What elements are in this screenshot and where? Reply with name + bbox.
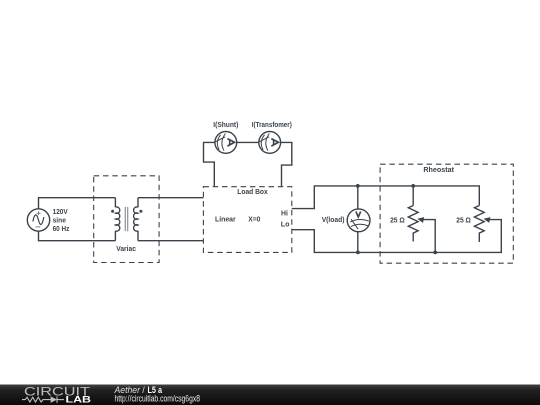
wire load box top terminal to ammeter I(Shunt) bbox=[204, 142, 215, 186]
ammeter I(Shunt) bbox=[215, 132, 237, 154]
svg-text:Linear: Linear bbox=[215, 217, 236, 224]
svg-text:V(load): V(load) bbox=[322, 217, 345, 224]
svg-text:X=0: X=0 bbox=[248, 217, 260, 224]
voltage source V1 bbox=[27, 209, 49, 231]
Variac dashed box bbox=[94, 176, 159, 263]
svg-text:Rheostat: Rheostat bbox=[423, 167, 454, 174]
svg-text:I(Shunt): I(Shunt) bbox=[213, 122, 238, 129]
potentiometer R1 25 ohm bbox=[408, 206, 418, 242]
wire transformer secondary bottom to load box bbox=[138, 240, 203, 242]
voltmeter V(load) bbox=[347, 209, 370, 232]
transformer T1 (Variac) bbox=[115, 198, 138, 241]
svg-text:Load Box: Load Box bbox=[237, 189, 268, 196]
ammeter I(Transfomer) bbox=[259, 132, 281, 154]
Rheostat dashed box bbox=[380, 164, 513, 263]
svg-text:Lo: Lo bbox=[281, 222, 290, 229]
wire voltmeter top stub bbox=[357, 186, 359, 209]
wire pot1 wiper tail to bottom rail bbox=[422, 220, 436, 253]
junction node at pot1 wiper on bottom rail bbox=[433, 251, 437, 255]
wire Hi terminal to rheostat top bbox=[292, 186, 480, 209]
svg-text:120V: 120V bbox=[53, 209, 68, 216]
wire source bottom to transformer primary bbox=[39, 231, 116, 241]
wire pot1 top lead bbox=[412, 186, 414, 206]
Load Box dashed box bbox=[203, 187, 291, 253]
wire voltmeter bottom stub bbox=[357, 232, 359, 253]
transformer phase dot right bbox=[139, 210, 142, 213]
svg-text:I(Transfomer): I(Transfomer) bbox=[252, 122, 292, 129]
svg-text:LAB: LAB bbox=[66, 394, 92, 404]
wire transformer secondary top to load box bbox=[138, 197, 203, 199]
svg-text:Hi: Hi bbox=[281, 211, 288, 218]
junction node at pot1 top bbox=[411, 184, 415, 188]
svg-text:Variac: Variac bbox=[116, 246, 136, 253]
wire between ammeters bbox=[237, 141, 259, 143]
label V1 value bbox=[53, 209, 70, 233]
footer bar bbox=[0, 385, 540, 405]
svg-text:60 Hz: 60 Hz bbox=[53, 226, 70, 233]
svg-text:sine: sine bbox=[53, 218, 66, 225]
wire Lo terminal bottom rail to pot2 wiper bbox=[292, 220, 502, 253]
svg-text:25 Ω: 25 Ω bbox=[390, 218, 405, 225]
potentiometer R2 wiper arrow bbox=[484, 217, 491, 223]
transformer phase dot left bbox=[111, 210, 114, 213]
potentiometer R2 25 ohm bbox=[474, 206, 484, 243]
CircuitLab logo resistor and diode glyph bbox=[22, 396, 64, 403]
svg-text:25 Ω: 25 Ω bbox=[456, 218, 471, 225]
wire source top to transformer primary bbox=[39, 198, 116, 209]
junction node at voltmeter top bbox=[356, 184, 360, 188]
wire ammeter I(Transfomer) to load box top terminal bbox=[281, 142, 292, 186]
svg-text:http://circuitlab.com/csg6gx8: http://circuitlab.com/csg6gx8 bbox=[115, 394, 201, 404]
potentiometer R1 wiper arrow bbox=[417, 217, 424, 223]
junction node at voltmeter bottom bbox=[356, 251, 360, 255]
